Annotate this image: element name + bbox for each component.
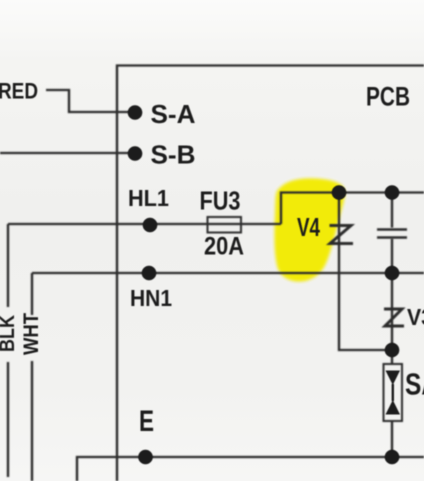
surge absorber SA body: [384, 364, 403, 421]
wire BLK vertical lower: [7, 362, 9, 477]
capacitor C bottom lead: [391, 239, 393, 273]
svg-text:HL1: HL1: [128, 185, 169, 211]
PCB board outline: [117, 66, 424, 481]
surge absorber SA bottom lead: [391, 421, 393, 457]
wire WHT vertical lower: [31, 361, 33, 481]
wire from RED lead to terminal S-A: [46, 90, 134, 112]
surge absorber SA upper arrow: [386, 371, 401, 386]
svg-text:BLK: BLK: [0, 315, 19, 352]
wire varistor V3 branch: [391, 273, 393, 350]
svg-text:SA: SA: [405, 367, 424, 402]
svg-text:PCB: PCB: [366, 82, 410, 112]
terminal node HL1: [143, 218, 158, 233]
wire varistor V4 branch vertical and to node: [339, 193, 392, 351]
svg-text:HN1: HN1: [130, 285, 172, 311]
wire step from fuse to node V4: [281, 193, 339, 225]
surge absorber SA gap line: [392, 384, 394, 401]
svg-text:WHT: WHT: [20, 313, 43, 355]
highlighter mark over V4: [274, 178, 344, 281]
svg-text:FU3: FU3: [200, 186, 241, 216]
wire BLK lead to HL1: [8, 223, 281, 225]
svg-text:E: E: [139, 405, 154, 438]
svg-text:V4: V4: [297, 212, 320, 242]
node V4 top junction: [332, 185, 347, 200]
node SA bottom junction: [385, 450, 400, 465]
surge absorber SA top lead: [391, 350, 393, 365]
terminal node S-B: [128, 146, 143, 161]
svg-text:V3: V3: [407, 304, 424, 330]
varistor V3 zigzag symbol: [384, 309, 404, 326]
wire top bus to right edge: [339, 191, 424, 193]
svg-text:RED: RED: [0, 79, 38, 104]
terminal node HN1: [142, 266, 157, 281]
surge absorber SA lower arrow: [386, 400, 401, 415]
terminal node S-A: [128, 105, 143, 120]
wire WHT vertical upper: [31, 273, 33, 315]
earth wire E: [77, 457, 424, 481]
node V3 / SA junction: [385, 343, 400, 358]
varistor V4 zigzag symbol: [330, 226, 354, 244]
node capacitor top junction: [385, 185, 400, 200]
terminal node E: [138, 450, 153, 465]
capacitor C top lead: [391, 193, 393, 228]
fuse FU3 body: [208, 217, 242, 233]
svg-text:S-A: S-A: [151, 99, 196, 129]
svg-text:S-B: S-B: [151, 140, 196, 170]
capacitor C plates: [377, 230, 407, 238]
svg-text:20A: 20A: [204, 233, 244, 261]
node capacitor bottom junction: [385, 266, 400, 281]
wire to terminal S-B: [0, 152, 134, 154]
wire WHT lead through HN1 to capacitor bottom: [32, 272, 424, 274]
wire BLK vertical upper: [7, 224, 9, 307]
